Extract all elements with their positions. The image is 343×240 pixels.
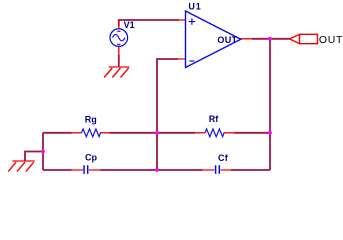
op-amp U1 body xyxy=(186,11,241,68)
svg-text:Rf: Rf xyxy=(209,114,219,124)
svg-text:Cp: Cp xyxy=(85,152,97,162)
wire left vertical joining rows xyxy=(42,133,44,170)
svg-text:U1: U1 xyxy=(188,2,201,12)
junction ground/left vertical xyxy=(41,150,45,154)
V1 sine waveform xyxy=(113,34,125,40)
voltage source V1 pin stubs xyxy=(118,21,120,58)
svg-text:OUT: OUT xyxy=(217,35,237,45)
capacitor Cp xyxy=(72,169,101,171)
op-amp plus input mark xyxy=(189,18,195,24)
ground bottom left xyxy=(8,161,35,172)
resistor Rf xyxy=(195,132,205,134)
junction output node xyxy=(268,37,272,41)
wire V1 top to U1 plus input xyxy=(119,20,179,26)
junction Rf row / right vertical xyxy=(268,131,272,135)
wire feedback row Rf/Rg (node A) xyxy=(43,132,270,134)
V1 minus polarity mark xyxy=(117,43,120,45)
op-amp U1 pin stubs xyxy=(178,20,253,59)
voltage source V1 body xyxy=(110,29,128,47)
wire capacitor row Cp/Cf xyxy=(43,169,270,171)
port OUT connector xyxy=(290,34,318,43)
junction inverting input / Rg-Rf row xyxy=(155,131,159,135)
op-amp minus input mark xyxy=(189,60,194,62)
V1 plus polarity mark xyxy=(117,30,120,32)
wire U1 minus input feedback xyxy=(157,59,178,170)
capacitor Cf xyxy=(203,169,232,171)
ground under V1 xyxy=(104,67,129,78)
svg-text:Rg: Rg xyxy=(85,114,97,124)
wire U1 output to port xyxy=(252,38,290,40)
wire output node vertical xyxy=(269,39,271,170)
resistor Rg xyxy=(72,132,82,134)
svg-text:V1: V1 xyxy=(124,20,135,30)
wire ground stub bottom left xyxy=(25,152,43,161)
wire V1 bottom to ground xyxy=(118,55,120,66)
svg-text:OUT: OUT xyxy=(319,34,343,46)
svg-text:Cf: Cf xyxy=(218,153,229,163)
junction cap row / middle vertical xyxy=(155,168,159,172)
